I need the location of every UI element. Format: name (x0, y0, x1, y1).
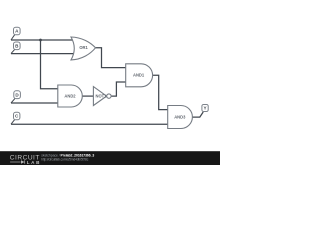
svg-text:Y: Y (204, 106, 207, 111)
svg-text:NOT1: NOT1 (96, 94, 108, 99)
svg-text:LAB: LAB (27, 160, 40, 165)
svg-text:http://circuitlab.com/c/5md4db: http://circuitlab.com/c/5md4dbr5t78c (41, 157, 88, 161)
svg-text:OR1: OR1 (79, 45, 88, 50)
svg-text:AND2: AND2 (64, 94, 76, 99)
svg-text:AND3: AND3 (174, 115, 186, 120)
svg-text:AND1: AND1 (133, 73, 145, 78)
